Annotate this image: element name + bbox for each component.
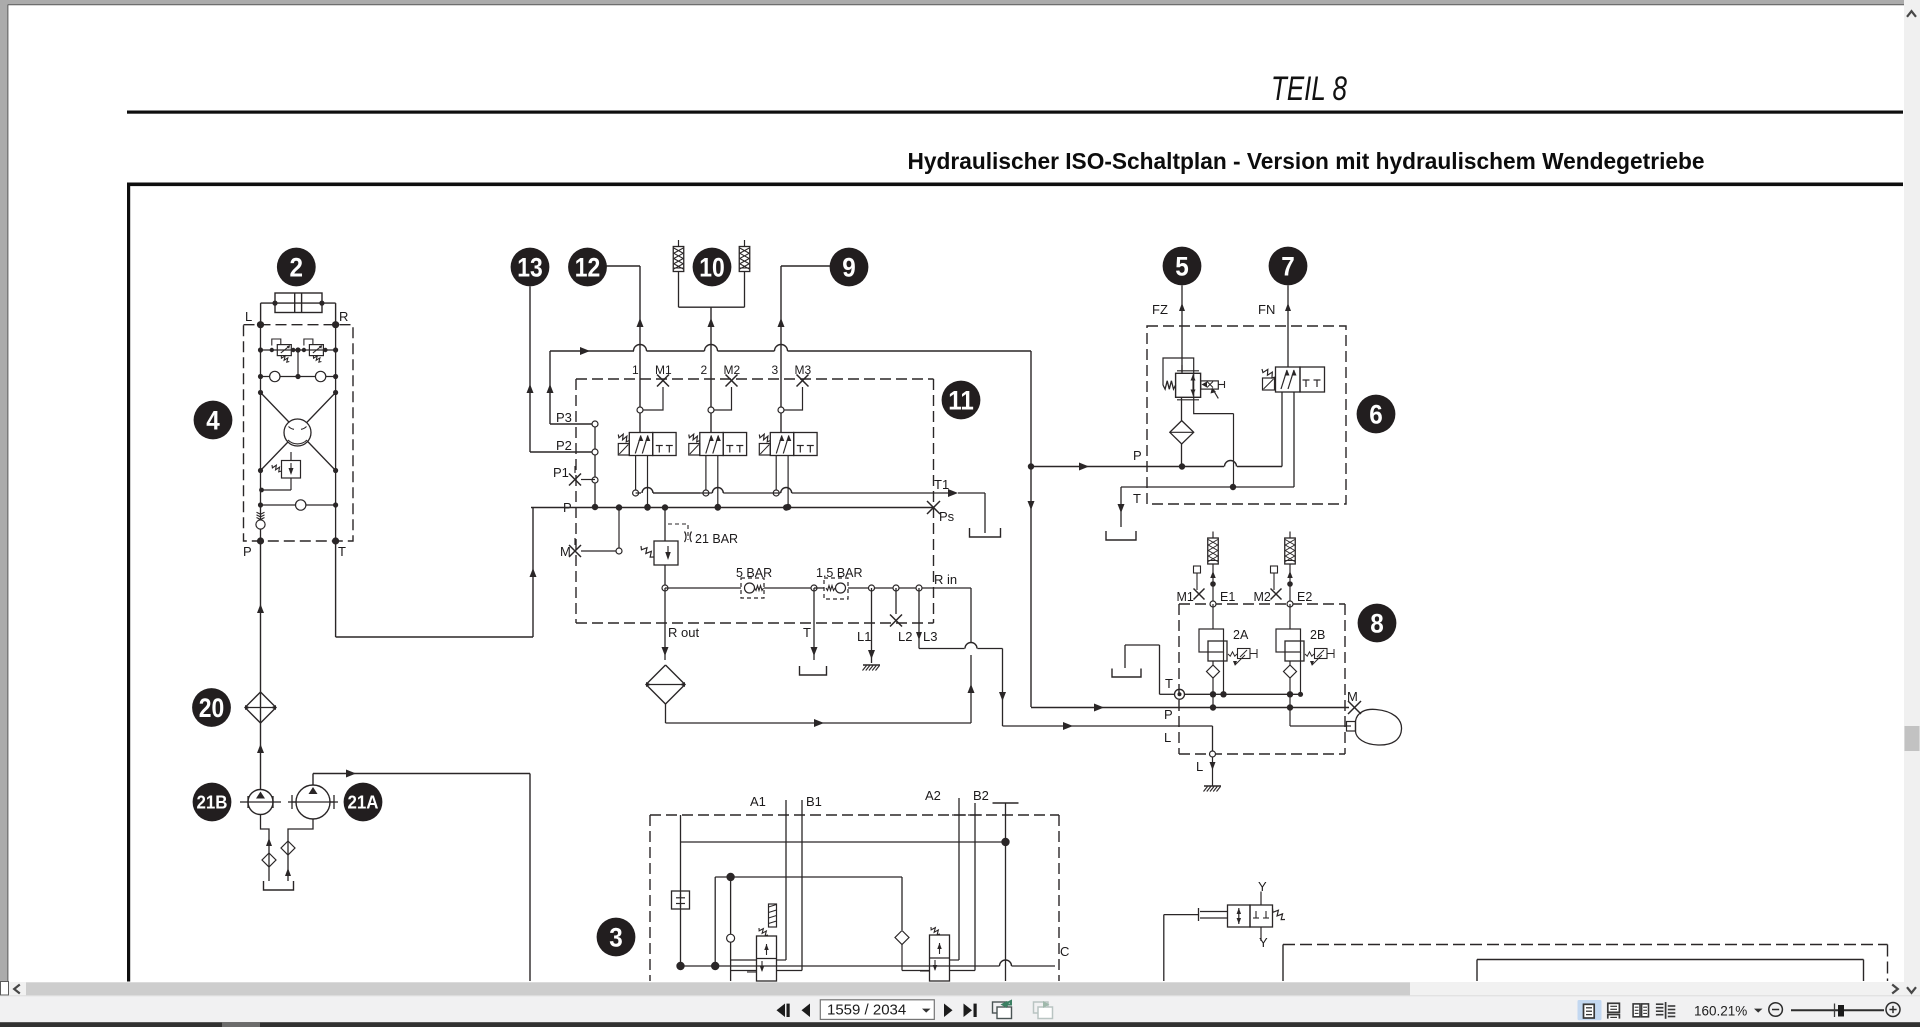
svg-text:E2: E2	[1297, 590, 1312, 604]
svg-text:T: T	[1133, 491, 1141, 506]
svg-text:B1: B1	[806, 794, 822, 809]
svg-text:M2: M2	[724, 363, 741, 377]
svg-text:1559 / 2034: 1559 / 2034	[827, 1002, 906, 1019]
svg-text:2A: 2A	[1233, 628, 1249, 642]
svg-text:R out: R out	[668, 625, 699, 640]
svg-text:P: P	[1164, 707, 1173, 722]
svg-text:P3: P3	[556, 410, 572, 425]
svg-text:160.21%: 160.21%	[1694, 1004, 1747, 1019]
svg-text:Y: Y	[1258, 879, 1267, 894]
svg-text:R in: R in	[934, 572, 957, 587]
svg-text:Hydraulischer ISO-Schaltplan -: Hydraulischer ISO-Schaltplan - Version m…	[908, 148, 1705, 174]
svg-text:3: 3	[772, 363, 779, 377]
svg-text:8: 8	[1370, 609, 1384, 639]
svg-text:M2: M2	[1254, 590, 1271, 604]
svg-text:L3: L3	[923, 629, 937, 644]
svg-text:P: P	[243, 544, 252, 559]
svg-text:12: 12	[575, 253, 601, 283]
svg-text:L2: L2	[898, 629, 912, 644]
svg-text:M1: M1	[1177, 590, 1194, 604]
svg-text:P: P	[1133, 448, 1142, 463]
svg-text:A2: A2	[925, 788, 941, 803]
svg-text:R: R	[339, 309, 348, 324]
svg-text:Y: Y	[1259, 935, 1268, 950]
svg-text:1: 1	[632, 363, 639, 377]
svg-text:6: 6	[1369, 400, 1383, 430]
svg-text:10: 10	[699, 253, 725, 283]
svg-text:21 BAR: 21 BAR	[695, 532, 738, 546]
svg-text:L: L	[245, 309, 252, 324]
svg-text:Ps: Ps	[939, 509, 955, 524]
svg-text:21A: 21A	[348, 792, 379, 813]
svg-text:9: 9	[842, 253, 856, 283]
svg-text:P2: P2	[556, 438, 572, 453]
svg-text:P1: P1	[553, 465, 569, 480]
svg-text:2B: 2B	[1310, 628, 1325, 642]
svg-text:TEIL 8: TEIL 8	[1271, 70, 1347, 108]
svg-text:L: L	[1196, 759, 1203, 774]
svg-text:FN: FN	[1258, 302, 1275, 317]
svg-text:M1: M1	[655, 363, 672, 377]
svg-text:5: 5	[1175, 252, 1189, 282]
svg-text:C: C	[1060, 944, 1069, 959]
svg-text:2: 2	[701, 363, 708, 377]
svg-text:2: 2	[290, 253, 304, 283]
svg-text:4: 4	[206, 406, 220, 436]
svg-text:T: T	[338, 544, 346, 559]
svg-text:21B: 21B	[197, 792, 228, 813]
svg-text:T: T	[803, 625, 811, 640]
svg-text:L1: L1	[857, 629, 871, 644]
svg-text:7: 7	[1281, 252, 1295, 282]
svg-text:E1: E1	[1220, 590, 1235, 604]
svg-text:L: L	[1164, 730, 1171, 745]
svg-text:FZ: FZ	[1152, 302, 1168, 317]
svg-text:T1: T1	[934, 477, 949, 492]
svg-text:20: 20	[199, 693, 225, 723]
svg-text:13: 13	[517, 253, 543, 283]
svg-text:M3: M3	[795, 363, 812, 377]
svg-text:T: T	[1165, 676, 1173, 691]
svg-text:11: 11	[948, 386, 974, 416]
svg-text:B2: B2	[973, 788, 989, 803]
svg-text:A1: A1	[750, 794, 766, 809]
svg-text:3: 3	[609, 923, 623, 953]
